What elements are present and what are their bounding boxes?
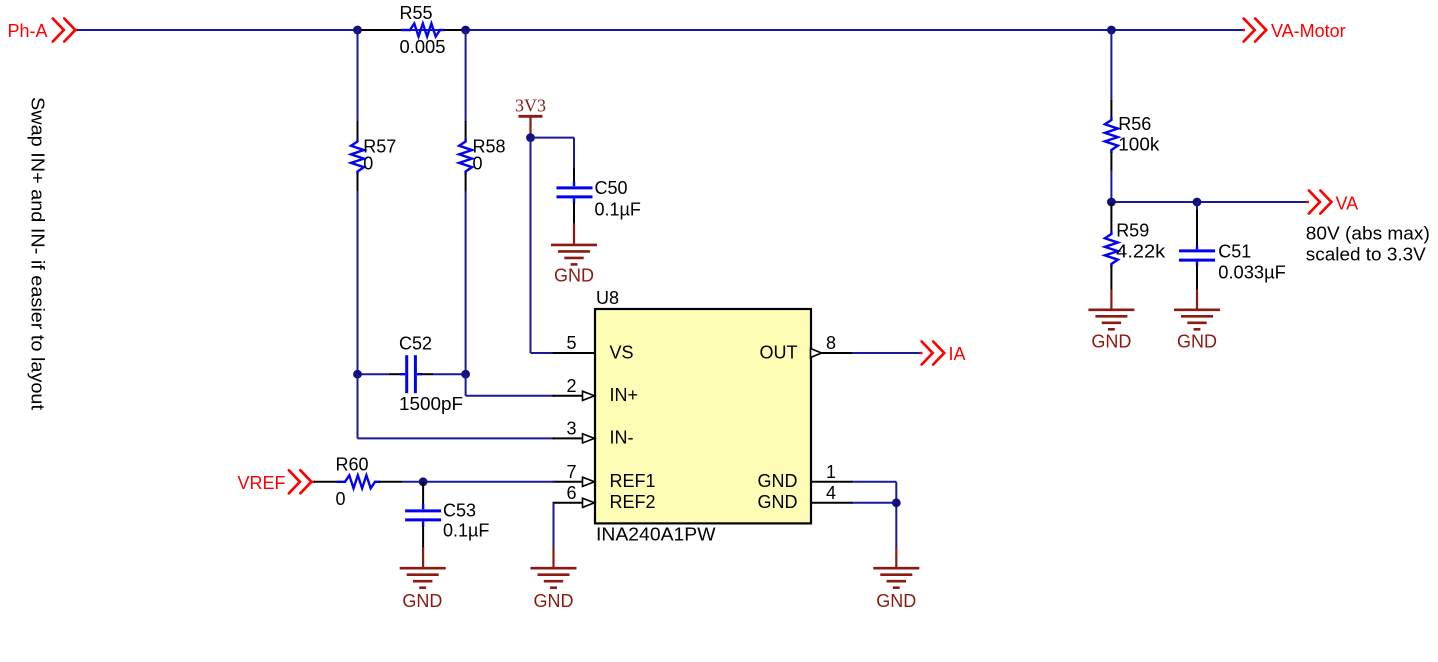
svg-text:VA: VA (1336, 194, 1359, 214)
wire VREF net to REF1 (402, 481, 555, 483)
svg-text:6: 6 (566, 483, 576, 503)
pin 5 VS (553, 333, 634, 362)
svg-text:REF1: REF1 (610, 471, 656, 491)
capacitor C52 1500pF (358, 334, 466, 415)
port IA (920, 342, 966, 365)
svg-text:GND: GND (554, 266, 594, 286)
resistor R58 0 (459, 30, 505, 374)
port Ph-A (7, 19, 78, 42)
port VA-Motor (1243, 19, 1346, 42)
svg-text:R60: R60 (336, 455, 369, 475)
ground GND below REF2 (531, 547, 577, 611)
svg-text:0.033µF: 0.033µF (1218, 263, 1286, 283)
svg-text:GND: GND (1091, 332, 1131, 352)
svg-text:0: 0 (336, 489, 346, 509)
svg-text:IN-: IN- (610, 428, 634, 448)
junction VA net at C51 (1193, 198, 1202, 207)
svg-text:VS: VS (610, 342, 634, 362)
wire IN- net (358, 374, 555, 438)
svg-text:REF2: REF2 (610, 492, 656, 512)
svg-text:Swap IN+ and IN- if easier to: Swap IN+ and IN- if easier to layout (28, 97, 48, 410)
resistor R56 100k (1105, 30, 1160, 202)
junction top rail at R56 (1107, 26, 1116, 35)
port VREF (237, 470, 315, 493)
ground GND below R59 (1088, 290, 1134, 352)
svg-text:8: 8 (826, 333, 836, 353)
svg-text:0.1µF: 0.1µF (595, 200, 641, 220)
pin 3 IN- (553, 418, 634, 447)
note 80V scaled to 3.3V (1306, 224, 1430, 265)
svg-text:5: 5 (566, 333, 576, 353)
resistor R59 4.22k (1105, 202, 1166, 291)
svg-text:GND: GND (758, 492, 798, 512)
resistor R55 0.005 (358, 3, 466, 57)
svg-text:R55: R55 (400, 3, 433, 23)
svg-text:1: 1 (826, 462, 836, 482)
svg-text:100k: 100k (1118, 135, 1160, 155)
svg-text:VREF: VREF (237, 473, 285, 493)
svg-text:C51: C51 (1218, 242, 1251, 262)
svg-text:7: 7 (566, 462, 576, 482)
wire 3V3 to VS pin (531, 138, 555, 353)
svg-text:GND: GND (876, 591, 916, 611)
pin 7 REF1 (553, 462, 656, 491)
power port 3V3 (515, 96, 546, 138)
svg-text:80V (abs max): 80V (abs max) (1306, 224, 1430, 244)
wire GND pins to ground (852, 482, 896, 548)
port VA (1306, 191, 1358, 214)
resistor R60 0 (314, 455, 402, 510)
svg-text:1500pF: 1500pF (399, 394, 463, 414)
pin 4 GND (758, 483, 854, 512)
junction VA net at R59 (1107, 198, 1116, 207)
wire OUT to IA (852, 352, 920, 354)
capacitor C53 0.1uF (405, 482, 489, 548)
ground GND below U8 (873, 547, 919, 611)
svg-text:Ph-A: Ph-A (7, 21, 47, 41)
svg-text:scaled to 3.3V: scaled to 3.3V (1306, 245, 1426, 265)
svg-text:R56: R56 (1118, 114, 1151, 134)
svg-text:GND: GND (534, 591, 574, 611)
wire top rail Ph-A to VA-Motor (77, 29, 1243, 31)
svg-text:C50: C50 (595, 178, 628, 198)
svg-text:OUT: OUT (760, 342, 798, 362)
junction top rail at R58 (461, 26, 470, 35)
svg-text:0.1µF: 0.1µF (443, 521, 489, 541)
svg-text:VA-Motor: VA-Motor (1271, 21, 1346, 41)
pin 6 REF2 (553, 483, 656, 512)
pin 8 OUT (760, 333, 854, 362)
junction 3V3 node (526, 133, 535, 142)
svg-text:IN+: IN+ (610, 385, 639, 405)
wire 3V3 to C50 (531, 138, 575, 169)
svg-text:4.22k: 4.22k (1116, 242, 1166, 262)
svg-text:C53: C53 (443, 501, 476, 521)
capacitor C51 0.033uF (1179, 202, 1286, 291)
wire VA net (1111, 201, 1306, 203)
junction VREF net node (419, 477, 428, 486)
capacitor C50 0.1uF (557, 168, 641, 225)
wire REF2 to ground (553, 503, 555, 548)
svg-text:0: 0 (473, 154, 483, 174)
junction top rail at R57 (353, 26, 362, 35)
junction C52 right node (461, 370, 470, 379)
note rotated text 'Swap IN+ and IN- if easier to layout' (28, 97, 48, 410)
resistor R57 0 (351, 30, 396, 374)
svg-text:GND: GND (758, 471, 798, 491)
wire IN+ net (466, 374, 555, 396)
ground GND below C50 (551, 224, 597, 286)
svg-text:C52: C52 (399, 334, 432, 354)
svg-text:4: 4 (826, 483, 836, 503)
ground GND below C51 (1174, 290, 1220, 352)
svg-text:GND: GND (1177, 332, 1217, 352)
svg-text:INA240A1PW: INA240A1PW (596, 525, 716, 545)
junction C52 left node (353, 370, 362, 379)
svg-text:2: 2 (566, 376, 576, 396)
svg-text:3: 3 (566, 418, 576, 438)
svg-text:U8: U8 (596, 288, 619, 308)
ground GND below C53 (400, 547, 446, 611)
svg-text:3V3: 3V3 (515, 96, 546, 116)
svg-text:GND: GND (402, 591, 442, 611)
junction GND net node (892, 498, 901, 507)
svg-text:0: 0 (363, 154, 373, 174)
svg-text:R59: R59 (1116, 221, 1149, 241)
pin 1 GND (758, 462, 854, 491)
svg-text:IA: IA (949, 344, 966, 364)
pin 2 IN+ (553, 376, 639, 405)
op-amp U8 INA240A1PW body (595, 288, 811, 545)
svg-text:0.005: 0.005 (400, 37, 446, 57)
